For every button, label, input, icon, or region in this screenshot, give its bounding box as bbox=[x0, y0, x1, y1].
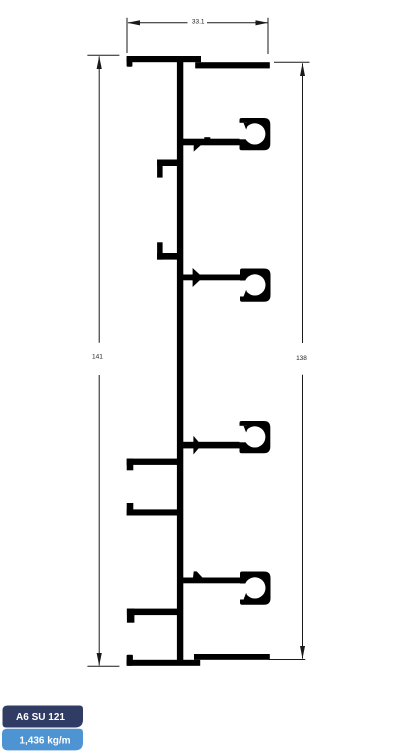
profile bottom flange left bar bbox=[127, 660, 201, 666]
hook 3 arm bbox=[183, 442, 241, 449]
hook 2 arm bbox=[183, 275, 242, 281]
bracket E bar (left, y609) bbox=[127, 609, 178, 616]
bracket B bar bbox=[157, 253, 177, 260]
hook 2 body bbox=[240, 269, 271, 302]
profile top flange right bar bbox=[195, 62, 270, 68]
bracket B lip (left, y242) bbox=[157, 242, 163, 259]
bracket D lip (left, y503) bbox=[127, 503, 134, 516]
dimension 141 (left height) bbox=[87, 55, 119, 666]
svg-text:A6 SU 121: A6 SU 121 bbox=[16, 712, 65, 723]
bracket C bar (left, y459) bbox=[127, 459, 178, 465]
hook 1 serrations bbox=[204, 137, 210, 139]
svg-text:141: 141 bbox=[92, 354, 103, 361]
hook 1 arm bbox=[183, 139, 241, 146]
arrow bottom of 141 bbox=[97, 653, 102, 666]
arrow bottom of 138 bbox=[300, 646, 305, 659]
bracket D bar bbox=[127, 509, 178, 515]
hook 3 body bbox=[240, 421, 271, 453]
arrow top of 141 bbox=[97, 56, 102, 69]
svg-text:138: 138 bbox=[296, 355, 307, 362]
arrow left of 33.1 bbox=[127, 20, 140, 25]
hook 4 arm bbox=[183, 578, 242, 584]
arrow top of 138 bbox=[300, 63, 305, 76]
profile top flange left lip bbox=[127, 56, 133, 67]
bracket A lip bbox=[157, 160, 163, 178]
hook 1 barb below arm bbox=[194, 145, 201, 152]
bracket E lip bbox=[127, 609, 134, 623]
label plate 1,436 kg/m bbox=[2, 729, 83, 751]
dimension 138 (right height) bbox=[269, 62, 310, 659]
bracket A bar (left, y160) bbox=[157, 160, 177, 167]
hook 4 body bbox=[240, 572, 271, 605]
dimension 33.1 (top width) bbox=[127, 18, 268, 54]
bracket C lip bbox=[127, 459, 134, 471]
hook 2 arrowhead barb bbox=[193, 268, 203, 287]
profile bottom flange right bar bbox=[194, 654, 270, 660]
hook 4 fin on arm bbox=[193, 571, 203, 577]
svg-text:33.1: 33.1 bbox=[192, 19, 205, 26]
arrow right of 33.1 bbox=[256, 20, 268, 25]
svg-text:1,436 kg/m: 1,436 kg/m bbox=[19, 735, 70, 746]
profile bottom flange left lip bbox=[127, 655, 133, 666]
hook 3 arrowhead barb bbox=[193, 436, 201, 455]
hook 1 body bbox=[240, 118, 271, 150]
profile top flange left bar bbox=[127, 56, 201, 62]
profile central web bbox=[177, 58, 183, 664]
label plate A6 SU 121 bbox=[3, 706, 84, 728]
